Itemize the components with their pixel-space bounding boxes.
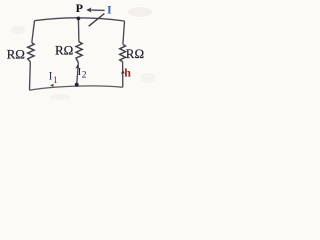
svg-text:P: P: [76, 1, 83, 15]
svg-text:RΩ: RΩ: [7, 47, 25, 62]
svg-text:2: 2: [82, 70, 87, 80]
svg-text:I: I: [107, 2, 112, 16]
svg-text:RΩ: RΩ: [55, 42, 73, 57]
svg-text:RΩ: RΩ: [126, 46, 144, 61]
svg-text:1: 1: [53, 76, 58, 86]
svg-text:I: I: [49, 71, 53, 83]
svg-text:h: h: [124, 65, 131, 79]
